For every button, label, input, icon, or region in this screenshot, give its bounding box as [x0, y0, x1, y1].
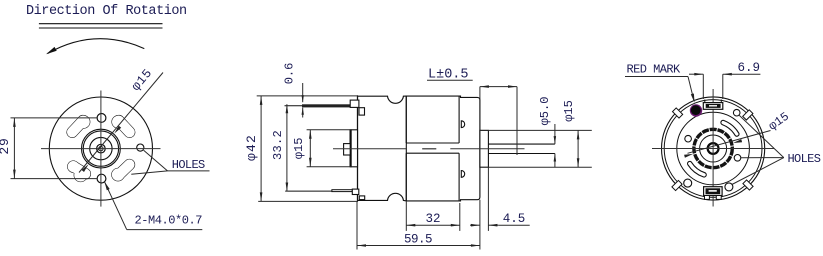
- front face M4 screw hole top: [97, 114, 106, 123]
- svg-text:6.9: 6.9: [738, 61, 761, 75]
- gearbox/motor joint line: [405, 96, 407, 201]
- mounting slot top-right: [111, 113, 136, 139]
- terminal block top (rear view): [703, 100, 723, 110]
- dimension 59.5: [357, 200, 480, 250]
- svg-text:4.5: 4.5: [503, 212, 526, 226]
- phi15 leader (rear view): [684, 110, 792, 158]
- rear view centerlines: [652, 89, 774, 207]
- svg-text:32: 32: [425, 212, 440, 226]
- svg-text:φ5.0: φ5.0: [538, 97, 552, 126]
- dimension phi15 (boss): [292, 130, 352, 167]
- gearbox mounting face line: [357, 95, 359, 201]
- dimension 0.6: [283, 63, 304, 118]
- rear shaft: [488, 144, 555, 153]
- vent slot upper-right: [721, 120, 739, 136]
- top terminal strip (side view): [285, 100, 365, 115]
- rear hole top-right: [733, 109, 740, 116]
- HOLES label (front view): [131, 150, 209, 174]
- svg-text:HOLES: HOLES: [172, 158, 205, 172]
- dimension phi15 (rear boss): [480, 100, 592, 167]
- rear bearing boss: [480, 130, 489, 167]
- svg-text:59.5: 59.5: [404, 233, 432, 247]
- rear endcap circle: [677, 112, 750, 185]
- output boss (side view): [350, 130, 357, 167]
- svg-text:φ42: φ42: [244, 134, 259, 161]
- dimension 4.5: [470, 167, 530, 231]
- output shaft stub: [344, 144, 351, 155]
- front view centerlines: [41, 91, 161, 207]
- svg-text:33.2: 33.2: [271, 130, 285, 160]
- title double underline: [39, 24, 163, 28]
- side view gearbox + motor outline: [358, 96, 480, 201]
- motor brush cap D tab upper: [461, 121, 464, 128]
- rear hole bottom-left: [684, 179, 692, 187]
- svg-text:2-M4.0*0.7: 2-M4.0*0.7: [135, 214, 203, 228]
- dimension 6.9: [689, 61, 760, 99]
- HOLES label (rear view): [732, 115, 821, 184]
- rear hole bottom-right: [725, 183, 733, 191]
- bottom terminal strip (side view): [285, 189, 364, 199]
- dimension 29: [0, 118, 97, 179]
- output boss thick face: [350, 130, 352, 167]
- svg-text:HOLES: HOLES: [788, 152, 821, 166]
- mounting slot top-left: [65, 113, 90, 139]
- motor brush cap D tab lower: [461, 171, 464, 178]
- dimension phi42: [244, 96, 358, 201]
- svg-text:29: 29: [0, 137, 12, 154]
- svg-text:φ15: φ15: [292, 137, 306, 159]
- dimension L±0.5: [427, 68, 517, 156]
- red mark dot: [690, 104, 702, 116]
- svg-text:0.6: 0.6: [283, 63, 297, 85]
- rim crimp tab 45: [743, 110, 753, 120]
- svg-text:Direction Of Rotation: Direction Of Rotation: [26, 4, 187, 19]
- motor rear outer rim double circle: [662, 97, 765, 200]
- 2-M4.0*0.7 thread callout: [104, 182, 202, 230]
- rim crimp tab 315: [743, 180, 753, 190]
- rear hole upper-left: [685, 135, 692, 142]
- rear hole mid-right: [734, 155, 741, 162]
- front face M4 screw hole bottom: [97, 174, 106, 183]
- rear bearing thick ring: [694, 129, 732, 167]
- shaft boss circles (front view center): [82, 129, 121, 168]
- motor can inner rectangles: [406, 96, 459, 201]
- RED MARK label: [625, 63, 695, 103]
- vent slot lower-left: [688, 161, 707, 177]
- terminal block bottom (rear view): [704, 187, 723, 200]
- rotation direction curved arrow: [46, 39, 144, 55]
- front face small hole right: [137, 144, 144, 151]
- rear boss circles: [700, 135, 727, 162]
- dimension 32: [406, 201, 460, 231]
- phi15 leader (front view): [79, 66, 163, 172]
- dimension phi5.0 (shaft): [538, 97, 556, 168]
- svg-text:φ15: φ15: [562, 100, 576, 122]
- gearbox front face outer circle: [49, 97, 152, 200]
- rim crimp tab 225: [672, 180, 682, 190]
- svg-text:RED MARK: RED MARK: [627, 63, 682, 77]
- title: Direction Of Rotation: [26, 4, 187, 19]
- mounting slot bottom-right: [111, 157, 137, 182]
- dimension 33.2: [271, 104, 288, 191]
- rim crimp tab 135: [673, 108, 683, 118]
- mounting slot bottom-left (heart): [66, 159, 92, 181]
- side view axis centerline: [333, 148, 525, 150]
